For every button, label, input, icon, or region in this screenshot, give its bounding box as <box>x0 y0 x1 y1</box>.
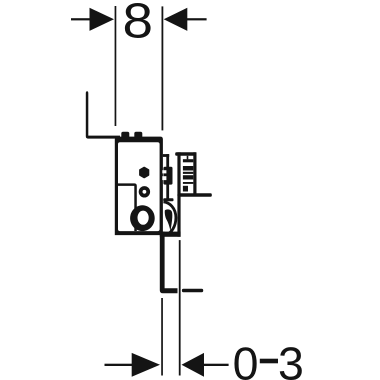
body bottom bar extension <box>160 232 181 237</box>
flush valve wedge <box>165 209 173 231</box>
connector bar to valve <box>163 154 169 157</box>
ribbed adjuster block <box>163 167 172 185</box>
cartridge stripe 2 <box>183 166 193 171</box>
hex nut <box>140 168 149 178</box>
cartridge bottom square <box>183 186 188 192</box>
top dimension arrow left <box>90 8 115 31</box>
bottom dimension arrow left <box>132 353 160 377</box>
body inner step <box>116 185 136 231</box>
wall bracket L-profile <box>86 91 120 138</box>
top dimension arrow right <box>164 8 188 31</box>
cartridge right wall <box>193 152 196 194</box>
svg-text:8: 8 <box>123 0 154 48</box>
cartridge stripe 3 <box>183 172 193 174</box>
body top tab 1 <box>121 132 129 139</box>
body top tab 2 <box>134 132 142 139</box>
bottom dimension extension line left <box>161 298 163 376</box>
lever bar <box>163 198 173 201</box>
top dimension extension line left <box>115 6 117 126</box>
valve rod <box>166 154 169 199</box>
cartridge mounting plate line <box>177 152 180 236</box>
rubber grommet ring <box>130 205 155 231</box>
wall finished-floor tick <box>182 289 203 293</box>
screw head <box>141 188 149 196</box>
cartridge stripe 4 <box>183 175 193 179</box>
cartridge bottom bar <box>177 193 211 197</box>
cartridge top divider <box>187 156 189 160</box>
cartridge top bar <box>175 152 196 156</box>
svg-text:3: 3 <box>278 337 304 380</box>
mounting body outline <box>115 137 163 236</box>
cartridge stripe 1 <box>183 159 193 162</box>
bottom dimension extension line right <box>179 240 181 375</box>
cartridge stripe 5 <box>183 182 193 184</box>
svg-text:0: 0 <box>233 337 259 380</box>
flush pipe <box>160 232 178 294</box>
flush valve bell outline <box>163 202 176 234</box>
bottom dimension arrow right <box>182 353 205 377</box>
top dimension extension line right <box>162 6 164 130</box>
